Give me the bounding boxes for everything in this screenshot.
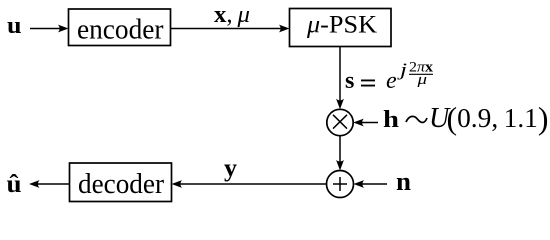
svg-text:û: û — [7, 171, 22, 198]
svg-text:decoder: decoder — [78, 169, 164, 200]
svg-text:h: h — [383, 107, 399, 133]
svg-text:u: u — [7, 13, 22, 39]
svg-text:n: n — [396, 167, 412, 196]
svg-text:x, μ: x, μ — [214, 2, 250, 28]
svg-text:μ: μ — [416, 72, 427, 88]
svg-text:μ-PSK: μ-PSK — [306, 12, 377, 39]
svg-text:e: e — [386, 68, 397, 94]
svg-text:(0.9, 1.1): (0.9, 1.1) — [447, 100, 549, 136]
svg-text:s: s — [345, 68, 354, 94]
svg-text:encoder: encoder — [77, 14, 164, 45]
svg-text:y: y — [224, 155, 238, 182]
